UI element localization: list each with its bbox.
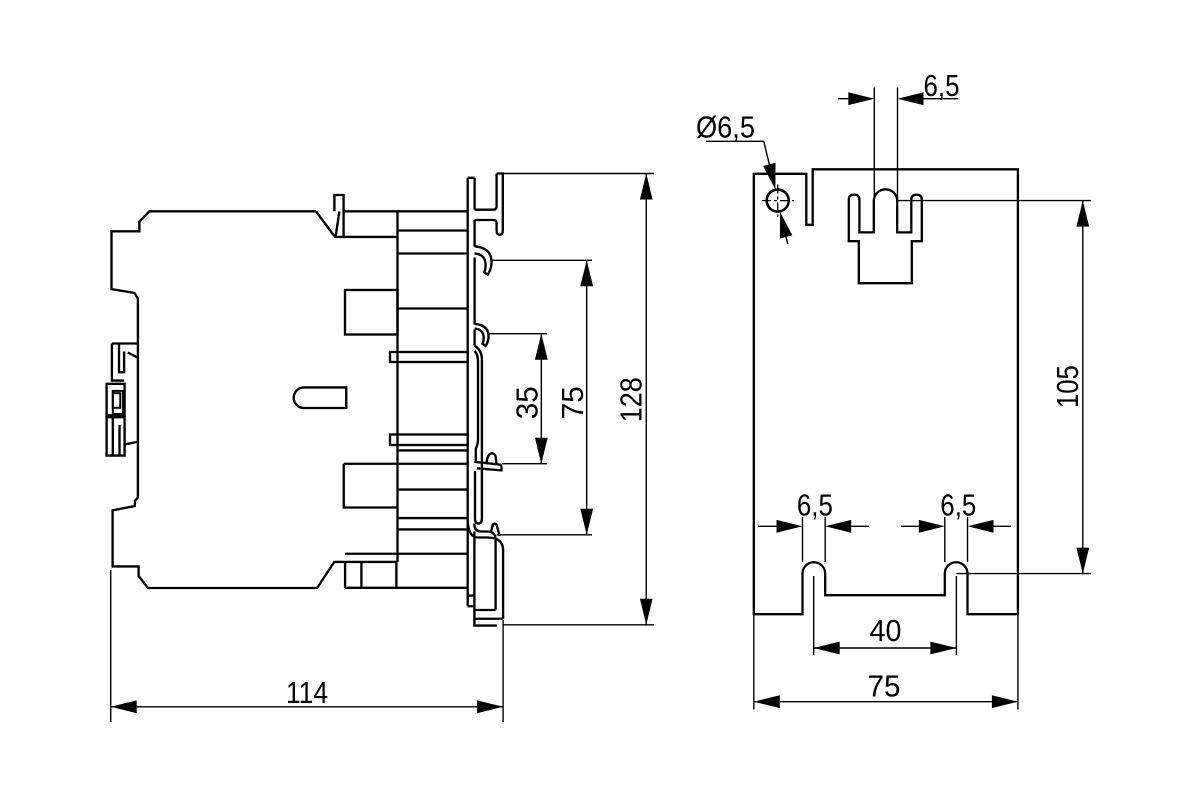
top chamfer to terminal xyxy=(316,211,468,237)
oval hole xyxy=(294,387,347,408)
arrow 75R left xyxy=(754,695,780,708)
dim 6,5 bottom-left ext xyxy=(803,517,826,562)
crown rail cutout xyxy=(849,189,922,283)
dim 6,5 bottom-right ext xyxy=(945,517,968,562)
svg-text:75: 75 xyxy=(555,386,590,419)
release spike xyxy=(487,453,497,463)
arrow 75L up xyxy=(580,260,593,286)
mounting hole xyxy=(767,190,789,212)
elbow to foot inner xyxy=(474,524,495,610)
dim 6,5 bottom-left tails xyxy=(758,525,869,527)
arrow hole upper xyxy=(763,163,775,190)
dim 75 left line xyxy=(586,260,588,535)
arrow 105 down xyxy=(1076,548,1089,574)
arrow 6,5 top left xyxy=(848,92,874,105)
dim 6,5 bottom-right tails xyxy=(901,525,1011,527)
svg-text:40: 40 xyxy=(870,613,902,648)
center vertical contour xyxy=(396,211,398,562)
dim 40 line xyxy=(814,647,957,649)
upper coil box xyxy=(345,290,398,335)
arrow 75L down xyxy=(580,509,593,535)
arrow 128 down xyxy=(640,599,653,625)
dim 128 ext lines xyxy=(503,174,654,625)
dim 35 line xyxy=(540,334,542,464)
svg-text:75: 75 xyxy=(868,669,901,704)
hole crosshair xyxy=(762,185,794,218)
dim 105 ext lines xyxy=(897,201,1091,574)
dim 114 ext lines xyxy=(111,570,503,722)
left clip bottom xyxy=(107,417,139,455)
left clip top xyxy=(112,344,138,381)
dim 75 right line xyxy=(754,701,1018,703)
foot xyxy=(468,532,504,626)
elbow spike xyxy=(491,523,500,536)
dim 114 line xyxy=(111,706,503,708)
arrow 40 left xyxy=(814,642,840,655)
left clip middle xyxy=(107,384,125,416)
lower box xyxy=(344,464,398,508)
DIN plate vertical xyxy=(468,178,475,606)
arrow 114 left xyxy=(111,700,137,713)
RIGHT VIEW: rear mounting plate xyxy=(754,169,1018,614)
svg-text:Ø6,5: Ø6,5 xyxy=(696,110,755,145)
arrow 6,5 br left xyxy=(919,520,945,533)
flex strip bulge xyxy=(475,346,482,524)
body outline xyxy=(112,211,468,588)
dim 75 right ext lines xyxy=(754,614,1018,709)
aux bar tabs xyxy=(390,352,468,362)
dim 75 left ext lines xyxy=(492,260,592,535)
svg-text:6,5: 6,5 xyxy=(797,488,833,523)
release lever wedge xyxy=(474,462,501,471)
elbow to foot outer xyxy=(468,519,503,619)
arrow 6,5 top right xyxy=(898,92,924,105)
lower shelf lines xyxy=(344,450,468,553)
arrow 75R right xyxy=(992,695,1018,708)
arrow 128 up xyxy=(640,174,653,200)
arrow 114 right xyxy=(477,700,503,713)
svg-text:6,5: 6,5 xyxy=(924,68,960,103)
arrow 35 up xyxy=(535,334,548,360)
svg-text:6,5: 6,5 xyxy=(940,488,976,523)
svg-text:114: 114 xyxy=(286,675,328,710)
claw middle xyxy=(475,324,489,346)
claw upper xyxy=(475,246,492,274)
arrow 40 right xyxy=(930,642,956,655)
svg-text:105: 105 xyxy=(1050,365,1085,408)
dim 6,5 top ext lines xyxy=(874,88,897,201)
arrow 6,5 bl left xyxy=(777,520,803,533)
arrow 35 down xyxy=(535,438,548,464)
svg-text:35: 35 xyxy=(510,386,545,419)
leader Ø6,5 xyxy=(706,141,788,244)
terminal shelf lines xyxy=(398,231,468,309)
svg-text:128: 128 xyxy=(614,377,649,422)
top hook channel xyxy=(475,174,503,235)
arrow hole lower xyxy=(780,212,792,239)
dim 128 line xyxy=(645,174,647,625)
arrow 6,5 bl right xyxy=(825,520,851,533)
dim 40 ext lines xyxy=(814,576,957,655)
dim 35 ext lines xyxy=(490,334,548,464)
arrow 6,5 br right xyxy=(968,520,994,533)
dim 105 line xyxy=(1082,201,1084,574)
dim 6,5 top tails xyxy=(838,98,958,100)
top tab xyxy=(334,195,343,237)
arrow 105 up xyxy=(1076,201,1089,227)
plate outline xyxy=(754,169,1018,614)
